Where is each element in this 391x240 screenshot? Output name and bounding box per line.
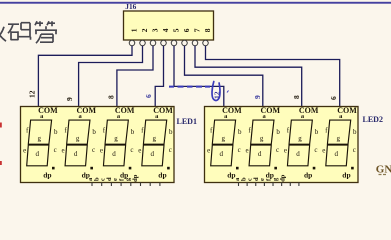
svg-text:8: 8 bbox=[292, 95, 301, 99]
svg-text:e: e bbox=[138, 147, 141, 155]
svg-text:c: c bbox=[314, 146, 317, 154]
svg-text:b: b bbox=[238, 128, 242, 136]
svg-text:e: e bbox=[62, 147, 65, 155]
svg-text:d: d bbox=[296, 150, 300, 158]
svg-text:b: b bbox=[353, 128, 357, 136]
svg-text:2: 2 bbox=[140, 28, 149, 32]
svg-text:g: g bbox=[153, 134, 157, 142]
svg-text:e: e bbox=[207, 147, 210, 155]
svg-text:12: 12 bbox=[27, 90, 36, 98]
svg-text:g: g bbox=[114, 134, 118, 142]
svg-text:c: c bbox=[353, 146, 356, 154]
svg-text:LED1: LED1 bbox=[177, 117, 197, 126]
svg-text:d: d bbox=[35, 150, 39, 158]
svg-text:dp: dp bbox=[304, 171, 312, 180]
svg-text:e: e bbox=[246, 147, 249, 155]
svg-text:b: b bbox=[169, 128, 173, 136]
svg-text:9: 9 bbox=[253, 95, 262, 99]
svg-text:c: c bbox=[238, 146, 241, 154]
svg-text:GN: GN bbox=[376, 164, 391, 176]
svg-text:b: b bbox=[315, 128, 319, 136]
svg-text:c: c bbox=[276, 146, 279, 154]
svg-text:c: c bbox=[54, 146, 57, 154]
svg-text:g: g bbox=[260, 134, 264, 142]
svg-text:b: b bbox=[92, 128, 96, 136]
svg-text:3: 3 bbox=[151, 28, 160, 32]
svg-text:g: g bbox=[37, 134, 41, 142]
svg-text:e: e bbox=[322, 147, 325, 155]
svg-text:LED2: LED2 bbox=[363, 115, 383, 124]
svg-text:d: d bbox=[112, 150, 116, 158]
svg-text:b: b bbox=[54, 128, 58, 136]
svg-text:g: g bbox=[298, 134, 302, 142]
svg-text:d: d bbox=[151, 150, 155, 158]
svg-text:c: c bbox=[169, 146, 172, 154]
svg-text:e: e bbox=[284, 147, 287, 155]
svg-text:9: 9 bbox=[65, 97, 74, 101]
svg-text:dp: dp bbox=[279, 174, 286, 182]
svg-text:d: d bbox=[74, 150, 78, 158]
svg-text:b: b bbox=[276, 128, 280, 136]
svg-text:dp: dp bbox=[158, 171, 166, 180]
svg-text:dp: dp bbox=[132, 174, 139, 182]
svg-text:g: g bbox=[76, 134, 80, 142]
svg-text:6: 6 bbox=[182, 28, 191, 32]
svg-text:c: c bbox=[92, 146, 95, 154]
svg-text:b: b bbox=[131, 128, 135, 136]
svg-text:dp: dp bbox=[43, 171, 51, 180]
svg-text:d: d bbox=[335, 150, 339, 158]
svg-text:6: 6 bbox=[144, 94, 153, 98]
svg-text:7: 7 bbox=[193, 28, 202, 32]
svg-text:g: g bbox=[337, 134, 341, 142]
svg-text:J16: J16 bbox=[125, 2, 136, 11]
svg-text:e: e bbox=[100, 147, 103, 155]
svg-text:dp: dp bbox=[342, 171, 350, 180]
svg-text:4: 4 bbox=[161, 28, 170, 32]
svg-text:e: e bbox=[23, 147, 26, 155]
svg-text:6: 6 bbox=[329, 96, 338, 100]
svg-text:8: 8 bbox=[203, 28, 212, 32]
svg-text:5: 5 bbox=[172, 28, 181, 32]
svg-text:1: 1 bbox=[130, 28, 139, 32]
svg-text:c: c bbox=[130, 146, 133, 154]
svg-text:d: d bbox=[258, 150, 262, 158]
svg-text:8: 8 bbox=[106, 95, 115, 99]
svg-text:g: g bbox=[221, 134, 225, 142]
svg-text:d: d bbox=[219, 150, 223, 158]
